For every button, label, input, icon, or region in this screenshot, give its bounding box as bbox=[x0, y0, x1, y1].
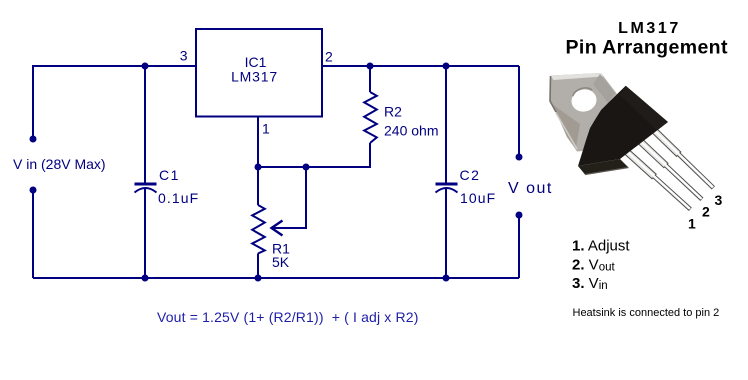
op-amp IC1 box bbox=[196, 29, 322, 117]
wire: V in top lead and top rail left bbox=[33, 66, 196, 139]
node: junction top rail / C2 bbox=[443, 63, 450, 70]
wire: C2 bottom lead bbox=[445, 189, 447, 278]
wire: bottom rail bbox=[33, 277, 519, 279]
svg-text:Heatsink is connected to pin 2: Heatsink is connected to pin 2 bbox=[573, 307, 720, 319]
wire: C2 top lead bbox=[445, 66, 447, 183]
svg-text:240 ohm: 240 ohm bbox=[384, 123, 438, 139]
svg-text:0.1uF: 0.1uF bbox=[158, 190, 199, 206]
svg-text:C2: C2 bbox=[460, 167, 481, 183]
svg-text:5K: 5K bbox=[272, 254, 290, 270]
svg-text:1. Adjust: 1. Adjust bbox=[572, 238, 630, 255]
node: junction top rail / R2 bbox=[367, 63, 374, 70]
svg-text:V in (28V Max): V in (28V Max) bbox=[13, 156, 106, 172]
svg-text:3. Vin: 3. Vin bbox=[572, 275, 608, 292]
metal tab of package bbox=[550, 73, 617, 152]
wire: R1 top lead bbox=[257, 167, 259, 205]
svg-text:3: 3 bbox=[715, 192, 723, 208]
body bottom face bbox=[578, 159, 629, 175]
wire: adjust node horizontal bbox=[258, 166, 306, 168]
package leg 1 bbox=[619, 144, 691, 210]
svg-text:LM317: LM317 bbox=[618, 20, 681, 37]
wire: C1 bottom lead bbox=[144, 189, 146, 278]
resistor R1 (potentiometer) bbox=[252, 205, 265, 254]
svg-text:R2: R2 bbox=[384, 104, 402, 120]
svg-text:2: 2 bbox=[325, 49, 333, 65]
wire: C1 top branch bbox=[144, 66, 146, 183]
capacitor C1 bbox=[135, 184, 157, 193]
body top sheen bbox=[620, 86, 668, 131]
package leg 2 bbox=[631, 132, 703, 200]
svg-text:10uF: 10uF bbox=[460, 190, 496, 206]
svg-text:2. Vout: 2. Vout bbox=[572, 256, 615, 273]
svg-text:Pin Arrangement: Pin Arrangement bbox=[566, 36, 728, 58]
node: junction bottom rail / C2 bbox=[443, 275, 450, 282]
wire: pin1 lead bbox=[257, 116, 259, 167]
svg-text:V out: V out bbox=[508, 180, 553, 197]
svg-text:2: 2 bbox=[702, 204, 710, 220]
svg-text:1: 1 bbox=[688, 216, 696, 232]
node: junction pin1 / adjust bbox=[255, 164, 262, 171]
svg-text:3: 3 bbox=[180, 48, 188, 64]
package leg 3 bbox=[645, 121, 715, 189]
svg-text:1: 1 bbox=[262, 121, 270, 137]
TO-220 package photo bbox=[550, 73, 714, 210]
wire: left bottom lead bbox=[32, 190, 34, 278]
svg-text:Vout = 1.25V (1+ (R2/R1)) + (: Vout = 1.25V (1+ (R2/R1)) + ( I adj x R2… bbox=[157, 309, 419, 325]
node: junction top rail / C1 bbox=[142, 63, 149, 70]
svg-text:LM317: LM317 bbox=[231, 68, 278, 84]
wiper arrow of potentiometer R1 bbox=[272, 221, 283, 236]
svg-text:C1: C1 bbox=[159, 167, 180, 183]
wire: pin2 top rail right bbox=[322, 65, 519, 67]
wire: R2 bottom lead to adjust node bbox=[306, 143, 370, 167]
node: junction bottom rail / R1 bbox=[255, 275, 262, 282]
wire: R1 bottom lead bbox=[257, 254, 259, 279]
body bottom edge highlight bbox=[585, 168, 629, 175]
plastic body bbox=[578, 86, 668, 166]
node: junction bottom rail / C1 bbox=[142, 275, 149, 282]
node: junction wiper branch bbox=[303, 164, 310, 171]
capacitor C2 bbox=[436, 184, 458, 193]
terminal: V in + bbox=[30, 136, 37, 143]
terminal: V out + bbox=[516, 154, 523, 161]
wire: R2 top lead bbox=[369, 66, 371, 92]
wire: wiper branch of R1 bbox=[273, 167, 306, 228]
wire: V out top lead bbox=[518, 66, 520, 157]
resistor R2 bbox=[364, 92, 377, 143]
terminal: V in - bbox=[30, 187, 37, 194]
wire: V out bottom lead bbox=[518, 215, 520, 278]
terminal: V out - bbox=[516, 212, 523, 219]
mounting hole bbox=[569, 87, 599, 114]
